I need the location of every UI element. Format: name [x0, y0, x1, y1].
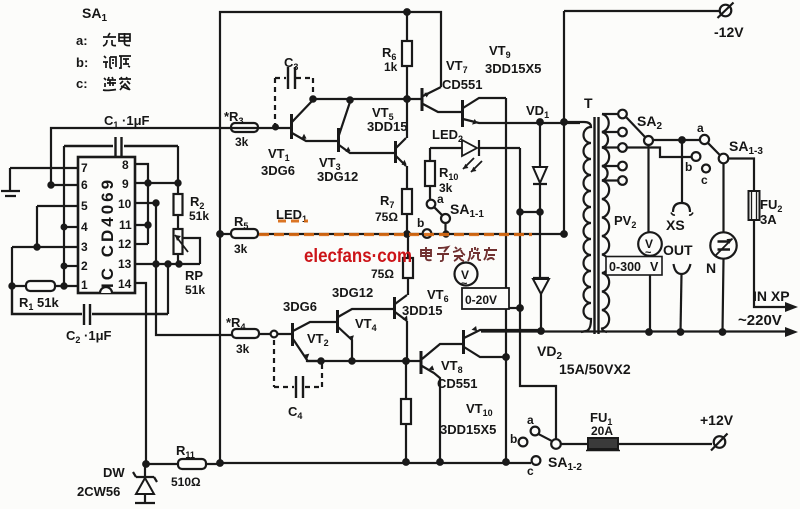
- svg-text:8: 8: [122, 158, 129, 172]
- resistor R4: [232, 329, 291, 338]
- label VT10 3DD15X5: [440, 401, 496, 437]
- svg-text:3k: 3k: [235, 135, 249, 149]
- svg-text:R11: R11: [176, 443, 195, 460]
- wire SA2 to SA1-3 row: [653, 137, 700, 143]
- svg-text:C1 ·1μF: C1 ·1μF: [104, 113, 150, 130]
- svg-text:12: 12: [118, 237, 132, 251]
- IC U1 CD4069: [78, 157, 135, 293]
- svg-text:5: 5: [81, 199, 88, 213]
- svg-text:CD551: CD551: [442, 77, 482, 92]
- svg-text:VT4: VT4: [355, 316, 377, 333]
- svg-text:3: 3: [81, 240, 88, 254]
- svg-text:75Ω: 75Ω: [375, 210, 398, 224]
- svg-text:*R3: *R3: [224, 109, 243, 126]
- transistor VT9: [463, 98, 581, 127]
- svg-text:3A: 3A: [760, 212, 777, 227]
- svg-text:a: a: [437, 192, 444, 206]
- label VT5 3DD15: [367, 105, 407, 134]
- svg-text:510Ω: 510Ω: [171, 475, 201, 489]
- label SA1-1 contacts: [417, 192, 484, 230]
- transformer T primary winding: [564, 122, 591, 332]
- svg-text:~220V: ~220V: [738, 312, 782, 329]
- svg-text:c: c: [527, 464, 534, 478]
- wire driver box frame: [217, 9, 531, 466]
- capacitor C1: [64, 137, 178, 156]
- wire SA1-3 common to FU2: [728, 159, 754, 192]
- svg-text:VT1: VT1: [268, 146, 290, 163]
- node SA1 legend: [76, 5, 107, 91]
- legend chinese 逆变: [103, 77, 131, 90]
- svg-text:6: 6: [81, 178, 88, 192]
- transistor VT8: [421, 344, 463, 465]
- wire base row y99: [313, 96, 421, 103]
- label RP: [185, 268, 205, 297]
- svg-text:3DD15: 3DD15: [367, 119, 407, 134]
- svg-text:0-20V: 0-20V: [465, 293, 497, 307]
- svg-text:SA2: SA2: [637, 113, 662, 132]
- label VT1 3DG6: [261, 146, 295, 178]
- label VT6 3DD15: [402, 287, 449, 318]
- wire pin14 down to R11 node: [135, 283, 149, 467]
- svg-text:IN XP: IN XP: [753, 288, 790, 304]
- wire VT5 collector column: [406, 99, 408, 138]
- label VT9 3DD15X5: [485, 43, 541, 76]
- transistor VT2: [293, 322, 338, 361]
- socket XS: [671, 140, 693, 215]
- LED LED2: [430, 140, 520, 172]
- resistor R5: [220, 229, 270, 238]
- IC pin numbers: [81, 158, 132, 292]
- svg-text:VT2: VT2: [307, 331, 329, 348]
- wire pin8: [135, 164, 148, 183]
- wire pin2: [62, 264, 78, 269]
- svg-text:PV2: PV2: [614, 213, 636, 230]
- wire pin13 down to C2: [167, 264, 169, 314]
- svg-text:a: a: [527, 413, 534, 427]
- svg-text:~: ~: [461, 278, 468, 290]
- watermark orange dashed line: [259, 221, 532, 235]
- label meter PV1: [461, 268, 497, 307]
- legend chinese 调压: [103, 56, 131, 68]
- svg-text:3DD15X5: 3DD15X5: [440, 422, 496, 437]
- resistor R8: [403, 234, 413, 295]
- label VD2: [537, 343, 631, 377]
- diode VD1: [517, 122, 547, 215]
- svg-text:14: 14: [118, 277, 132, 291]
- lamp N: [710, 163, 736, 332]
- wire tap b to SA1-3 b contact: [627, 148, 691, 158]
- svg-text:IC CD4069: IC CD4069: [98, 177, 117, 288]
- svg-text:C4: C4: [288, 404, 302, 421]
- label SA1-3 contacts: [685, 121, 763, 187]
- label R11: [171, 443, 201, 489]
- wire mid bus LED1 row: [217, 231, 567, 237]
- label VT8 CD551: [437, 358, 477, 391]
- transistor VT4: [338, 309, 394, 361]
- plug OUT: [674, 264, 691, 332]
- svg-text:3DG6: 3DG6: [283, 299, 317, 314]
- svg-text:75Ω: 75Ω: [371, 267, 394, 281]
- wire 220V bottom rail: [481, 327, 798, 337]
- svg-text:b: b: [510, 432, 517, 446]
- wire pin11: [135, 183, 151, 244]
- svg-text:N: N: [706, 260, 716, 276]
- wire top right rail: [564, 10, 719, 12]
- label 0-300V: [609, 260, 659, 274]
- wire pin7 to ground: [10, 167, 78, 169]
- watermark chinese 电子发烧友: [421, 247, 497, 261]
- wire pin13 row: [135, 261, 200, 266]
- svg-text:9: 9: [122, 177, 129, 191]
- label FU2 3A: [760, 197, 782, 227]
- label VT7 CD551: [442, 58, 482, 92]
- svg-text:LED2: LED2: [432, 127, 463, 144]
- svg-text:11: 11: [119, 218, 132, 232]
- svg-text:SA1-3: SA1-3: [729, 138, 763, 157]
- svg-text:*R4: *R4: [226, 315, 245, 332]
- svg-text:VD2: VD2: [537, 343, 562, 362]
- svg-text:b:: b:: [76, 55, 88, 70]
- svg-text:4: 4: [81, 220, 88, 234]
- terminal +12V: [711, 434, 728, 451]
- svg-text:51k: 51k: [185, 283, 205, 297]
- svg-text:2CW56: 2CW56: [77, 484, 120, 499]
- label SA1-2 contacts: [510, 413, 582, 478]
- terminal -12V: [718, 3, 734, 19]
- transformer T core: [595, 117, 599, 334]
- svg-text:VT6: VT6: [427, 287, 449, 304]
- resistor R9: [401, 361, 411, 465]
- legend chinese 充电: [103, 33, 130, 46]
- svg-text:R10: R10: [439, 165, 458, 182]
- diode VD2: [533, 212, 549, 334]
- svg-text:CD551: CD551: [437, 376, 477, 391]
- svg-text:10: 10: [118, 197, 132, 211]
- wire pin12: [135, 243, 148, 245]
- wire pin4: [62, 225, 78, 230]
- transistor VT1: [292, 100, 338, 141]
- label R7: [375, 193, 398, 224]
- svg-text:~: ~: [645, 247, 652, 259]
- svg-text:1: 1: [81, 278, 88, 292]
- svg-text:b: b: [417, 216, 424, 230]
- svg-text:-12V: -12V: [714, 24, 744, 40]
- svg-text:2: 2: [81, 259, 88, 273]
- svg-text:VT8: VT8: [441, 358, 463, 375]
- transistor VT10: [464, 326, 542, 357]
- svg-text:VD1: VD1: [526, 103, 549, 120]
- svg-text:VT9: VT9: [489, 43, 511, 60]
- wire -12V column to bus: [563, 11, 565, 234]
- svg-text:T: T: [584, 95, 593, 111]
- label R6: [382, 45, 398, 74]
- svg-text:VT7: VT7: [446, 58, 468, 75]
- transformer T secondary winding: [602, 114, 609, 332]
- wire FU2 to IN XP plug: [754, 220, 798, 312]
- svg-text:3DG6: 3DG6: [261, 163, 295, 178]
- svg-text:RP: RP: [185, 268, 203, 283]
- meter PV1 0-20V: [455, 263, 521, 310]
- svg-text:OUT: OUT: [663, 242, 693, 258]
- svg-text:1k: 1k: [384, 60, 398, 74]
- label box 0-300V: [606, 257, 662, 276]
- svg-text:3DD15: 3DD15: [402, 303, 442, 318]
- wire emitter row y361: [307, 321, 420, 364]
- svg-text:13: 13: [118, 257, 132, 271]
- svg-text:R5: R5: [234, 214, 248, 231]
- svg-text:3DD15X5: 3DD15X5: [485, 61, 541, 76]
- label DW 2CW56: [77, 465, 125, 499]
- resistor R3: [231, 123, 258, 132]
- fuse FU2 3A: [749, 191, 760, 220]
- resistor R1: [12, 281, 78, 291]
- svg-text:SA1-2: SA1-2: [548, 454, 582, 473]
- switch SA1-3: [692, 135, 729, 173]
- resistor R6: [402, 12, 412, 99]
- svg-text:c:: c:: [76, 76, 88, 91]
- wire pin5 to pin3: [34, 206, 78, 250]
- svg-text:DW: DW: [103, 465, 125, 480]
- svg-text:SA1: SA1: [82, 5, 107, 24]
- label R10: [439, 165, 458, 195]
- svg-text:15A/50VX2: 15A/50VX2: [559, 361, 631, 377]
- svg-text:C2 ·1μF: C2 ·1μF: [66, 328, 112, 345]
- svg-text:7: 7: [81, 161, 88, 175]
- svg-text:XS: XS: [666, 217, 685, 233]
- svg-text:a:: a:: [76, 33, 88, 48]
- svg-text:R1 51k: R1 51k: [19, 295, 59, 312]
- svg-text:20A: 20A: [591, 424, 613, 438]
- transformer tap stubs: [602, 110, 627, 185]
- voltmeter PV2: [638, 145, 662, 332]
- switch SA1-2: [519, 427, 561, 465]
- transistor VT5: [396, 138, 407, 166]
- label R4: [226, 315, 250, 356]
- svg-text:C3: C3: [284, 55, 298, 72]
- wire C1 left to pin1 node: [61, 146, 66, 289]
- svg-text:3k: 3k: [234, 242, 248, 256]
- svg-text:b: b: [685, 160, 692, 174]
- label R5: [234, 214, 248, 256]
- svg-text:3DG12: 3DG12: [332, 285, 373, 300]
- wire LED2 column and jog to SA1-2: [517, 148, 556, 439]
- svg-text:c: c: [701, 173, 708, 187]
- wire pin6 output to R3 (top long wire): [48, 128, 291, 188]
- label VT4 3DG12: [332, 285, 377, 333]
- capacitor C3 (dashed links): [275, 78, 313, 126]
- label FU1 20A: [590, 410, 613, 438]
- svg-text:VT10: VT10: [466, 401, 493, 418]
- switch SA1-1: [423, 200, 450, 238]
- svg-text:51k: 51k: [189, 209, 209, 223]
- resistor R10: [425, 148, 435, 199]
- wire pin10 to pin13: [135, 200, 233, 335]
- transistor VT7: [422, 87, 461, 112]
- wire VT9 top to output column: [503, 98, 509, 465]
- svg-text:3k: 3k: [236, 342, 250, 356]
- svg-text:0-300: 0-300: [609, 260, 641, 274]
- capacitor C4 (dashed links): [274, 340, 322, 387]
- label R2: [189, 194, 209, 223]
- svg-text:+12V: +12V: [700, 412, 734, 428]
- wire pin3: [9, 247, 78, 289]
- potentiometer RP: [174, 229, 201, 264]
- resistor R2: [174, 194, 183, 229]
- resistor R11: [146, 459, 220, 469]
- resistor R7: [402, 166, 412, 234]
- wire pin9 to C1 right / R2: [135, 146, 181, 194]
- label R3: [224, 109, 249, 149]
- svg-text:elecfans·com: elecfans·com: [304, 246, 412, 267]
- svg-text:a: a: [697, 121, 704, 135]
- svg-text:V: V: [650, 260, 659, 274]
- fuse FU1 20A: [561, 438, 712, 451]
- switch SA2: [627, 118, 654, 146]
- svg-text:R7: R7: [380, 193, 394, 210]
- svg-text:3DG12: 3DG12: [317, 169, 358, 184]
- svg-text:SA1-1: SA1-1: [450, 201, 484, 220]
- zener diode DW 2CW56: [133, 464, 157, 503]
- ground: [1, 168, 20, 196]
- label VT2 3DG6: [283, 299, 329, 348]
- capacitor C2: [12, 286, 168, 325]
- transistor VT3: [339, 102, 395, 153]
- label VT3 3DG12: [317, 155, 358, 184]
- label meter PV2 V: [645, 237, 653, 259]
- transistor VT6: [395, 295, 408, 321]
